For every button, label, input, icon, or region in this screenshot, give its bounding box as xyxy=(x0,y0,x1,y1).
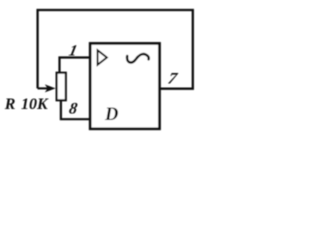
wire pin 1 to resistor top xyxy=(60,58,91,75)
wire feedback loop: left vertical, top horizontal, right vertical xyxy=(38,10,193,89)
svg-text:R 10K: R 10K xyxy=(4,96,49,113)
wire wiper arrow line xyxy=(38,87,49,89)
resistor R 10K body xyxy=(57,73,66,101)
oscillator sine symbol inside IC xyxy=(127,54,149,62)
svg-text:D: D xyxy=(104,105,118,125)
IC U1 box xyxy=(90,43,159,128)
wire resistor bottom to pin 8 xyxy=(61,100,90,119)
arrowhead pointing to potentiometer xyxy=(45,84,56,92)
buffer triangle symbol inside IC xyxy=(98,50,107,65)
